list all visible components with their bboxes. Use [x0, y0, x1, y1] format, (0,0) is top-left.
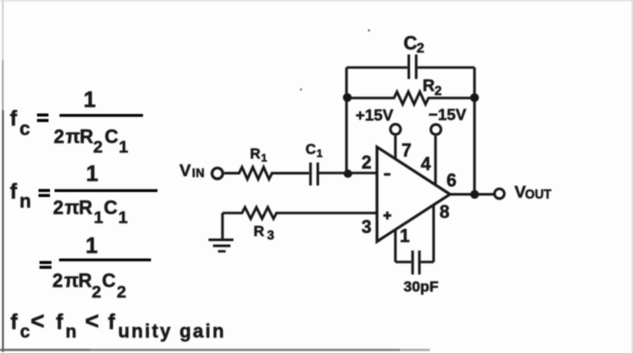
svg-text:R: R [254, 223, 265, 240]
svg-text:c: c [20, 119, 31, 140]
svg-text:f: f [56, 311, 64, 334]
svg-text:3: 3 [267, 228, 274, 243]
svg-text:f: f [108, 311, 116, 334]
svg-text:unity gain: unity gain [118, 322, 226, 343]
svg-text:4: 4 [421, 154, 431, 174]
svg-text:f: f [11, 311, 19, 334]
svg-text:+15V: +15V [356, 108, 394, 125]
svg-text:C: C [306, 142, 317, 158]
svg-text:2: 2 [417, 40, 425, 56]
svg-text:3: 3 [362, 217, 372, 237]
svg-text:1: 1 [400, 226, 410, 246]
svg-text:OUT: OUT [525, 188, 552, 202]
svg-text:2πRC: 2πRC [52, 271, 116, 292]
svg-text:6: 6 [447, 171, 457, 191]
svg-text:R: R [423, 76, 435, 95]
svg-text:1: 1 [317, 148, 323, 160]
svg-text:f: f [10, 108, 18, 131]
svg-text:8: 8 [440, 202, 450, 222]
svg-text:1: 1 [261, 153, 267, 165]
svg-text:2: 2 [435, 83, 442, 98]
svg-text:<: < [31, 308, 45, 335]
svg-text:2: 2 [362, 153, 372, 173]
svg-text:n: n [20, 192, 32, 213]
svg-text:7: 7 [402, 141, 412, 161]
svg-text:30pF: 30pF [404, 278, 439, 295]
svg-text:−15V: −15V [429, 107, 467, 124]
svg-text:C: C [404, 34, 418, 55]
svg-text:2πRC: 2πRC [54, 127, 119, 148]
svg-text:n: n [66, 322, 77, 342]
svg-text:IN: IN [192, 166, 205, 180]
svg-text:1: 1 [86, 161, 98, 186]
svg-text:1: 1 [84, 87, 96, 112]
svg-text:c: c [20, 322, 30, 342]
svg-text:V: V [180, 161, 192, 180]
svg-text:1: 1 [86, 233, 98, 258]
svg-text:<: < [85, 308, 99, 335]
svg-text:R: R [250, 147, 261, 163]
svg-text:f: f [10, 181, 18, 204]
svg-text:2πRC: 2πRC [53, 198, 118, 219]
